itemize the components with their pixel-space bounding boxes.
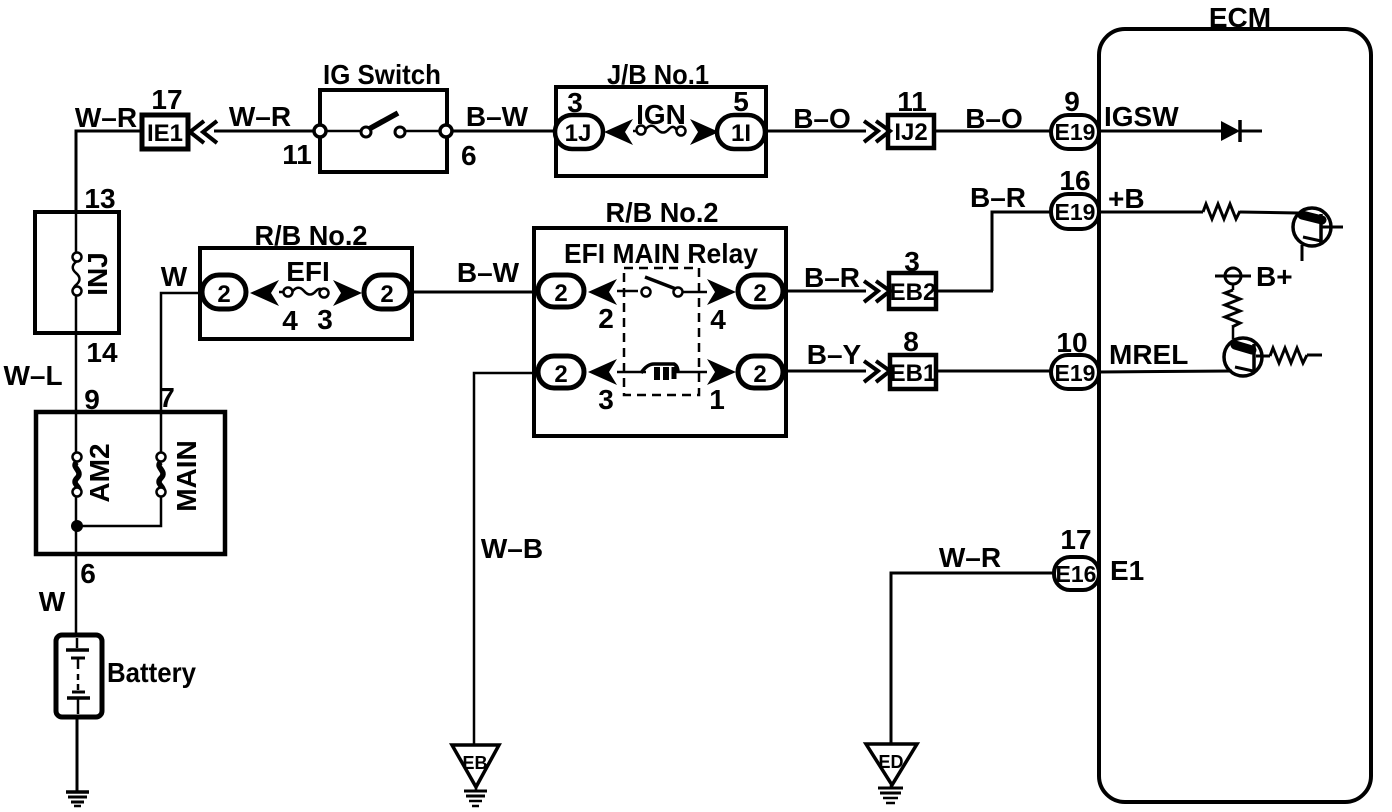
connector 2 (EFI fuse right) <box>364 275 410 309</box>
svg-text:5: 5 <box>733 86 749 117</box>
svg-text:2: 2 <box>753 361 766 388</box>
solid arrow left (J/B) <box>604 119 633 145</box>
label 2 (relay pin) <box>598 303 614 334</box>
svg-text:E16: E16 <box>1056 561 1097 587</box>
wire battery to ground <box>76 717 79 792</box>
svg-text:17: 17 <box>151 84 182 115</box>
ECM box <box>1099 2 1371 802</box>
label B-Y <box>807 339 862 370</box>
switch S1 contacts and lever <box>326 113 441 137</box>
svg-text:11: 11 <box>897 86 927 117</box>
label EFI <box>286 256 330 287</box>
svg-text:16: 16 <box>1059 165 1090 196</box>
INJ box <box>35 212 119 333</box>
label W-L <box>3 360 62 391</box>
svg-text:EFI MAIN Relay: EFI MAIN Relay <box>564 238 758 269</box>
svg-text:14: 14 <box>86 337 118 368</box>
wire IGSW with diode D1 <box>1099 120 1262 142</box>
label 14 (INJ pin) <box>86 337 118 368</box>
label 1 (relay pin) <box>709 384 725 415</box>
label B-W (row 1) <box>466 101 529 132</box>
svg-text:ECM: ECM <box>1209 2 1271 33</box>
wire resistor to transistor Q1 <box>1240 212 1298 213</box>
label 6 (battery feed pin) <box>80 558 96 589</box>
label W-R (E1 row) <box>939 542 1001 573</box>
relay switch contact <box>617 277 707 297</box>
ground EB <box>452 745 499 806</box>
node pin 6 (IG switch right) <box>440 125 477 171</box>
label +B <box>1108 183 1145 214</box>
label B-O <box>793 103 851 134</box>
relay dashed outline <box>624 268 699 395</box>
svg-text:1I: 1I <box>731 120 751 147</box>
svg-text:ED: ED <box>878 752 903 772</box>
svg-text:3: 3 <box>598 384 614 415</box>
ground ED <box>866 744 917 803</box>
wire IJ2 to E19 pin 9 <box>934 130 1052 133</box>
connector 1I <box>717 115 765 149</box>
svg-text:AM2: AM2 <box>84 443 115 502</box>
svg-text:B–W: B–W <box>466 101 529 132</box>
label 17 (E16 pin) <box>1060 524 1091 555</box>
wire coil to EB1 <box>783 370 866 373</box>
svg-text:2: 2 <box>753 280 766 307</box>
fuse INJ <box>73 212 114 333</box>
svg-text:2: 2 <box>380 281 393 308</box>
svg-text:2: 2 <box>217 281 230 308</box>
label W-R (far left) <box>75 102 137 133</box>
label IGSW <box>1104 101 1179 132</box>
wire INJ to AM2 <box>75 333 78 413</box>
wire +B to resistor <box>1099 211 1203 214</box>
svg-text:11: 11 <box>282 139 312 170</box>
double chevron arrow (left) at IE1 <box>190 121 217 143</box>
wire E1 to ED ground <box>891 573 1054 744</box>
wire AM2 to box bottom <box>75 496 78 554</box>
resistor R3 (Q2 emitter) <box>1256 348 1322 363</box>
fusible link box (AM2/MAIN) <box>36 412 225 554</box>
double chevron arrow at EB1 <box>864 361 890 382</box>
svg-text:4: 4 <box>710 304 726 335</box>
battery BT1 <box>56 635 196 717</box>
wire IE1 to IG switch <box>214 130 318 133</box>
wire EB1 to E19 pin 10 <box>936 370 1052 373</box>
fusible link MAIN <box>157 413 203 512</box>
solid arrow left (coil row) <box>588 359 617 385</box>
label 9 (pin) <box>1064 86 1080 117</box>
wire EFI fuse to relay <box>410 291 539 294</box>
svg-text:B–W: B–W <box>457 257 520 288</box>
svg-text:MAIN: MAIN <box>171 440 202 512</box>
solid arrow left (EFI fuse) <box>250 280 279 306</box>
svg-text:E19: E19 <box>1055 360 1096 386</box>
wire IG switch to J/B No.1 <box>452 130 556 133</box>
label 3 (above EB2) <box>904 246 920 277</box>
label W (battery wire) <box>39 586 66 617</box>
label E1 <box>1110 555 1144 586</box>
label 8 (above EB1) <box>903 326 919 357</box>
svg-text:6: 6 <box>80 558 96 589</box>
label B-R <box>804 262 860 293</box>
label 11 (above IJ2) <box>897 86 927 117</box>
wire W-R top left corner <box>76 131 143 212</box>
label 4 (relay pin) <box>710 304 726 335</box>
svg-text:B–O: B–O <box>793 103 851 134</box>
svg-text:6: 6 <box>461 140 477 171</box>
solid arrow right (contact row) <box>707 279 736 305</box>
connector IJ2 <box>888 115 934 148</box>
svg-text:17: 17 <box>1060 524 1091 555</box>
resistor R1 (+B line) <box>1203 204 1240 219</box>
svg-text:2: 2 <box>554 280 567 307</box>
fusible link AM2 <box>73 412 116 503</box>
ground (battery) <box>66 792 89 806</box>
wire contact to EB2 <box>783 290 866 293</box>
svg-text:2: 2 <box>598 303 614 334</box>
connector 2 (relay coil left) <box>538 356 584 388</box>
label 5 (pin of 1I) <box>733 86 749 117</box>
wire coil to W-B ground run <box>474 373 538 745</box>
wire MREL to Q2 <box>1099 371 1232 372</box>
label 9 (AM2 pin) <box>84 384 100 415</box>
svg-text:EB1: EB1 <box>890 360 937 387</box>
svg-text:EB: EB <box>462 753 487 773</box>
svg-text:B–R: B–R <box>804 262 860 293</box>
junction node A <box>71 520 83 532</box>
label W-B <box>481 533 543 564</box>
label 3 (fuse pin) <box>317 304 333 335</box>
double chevron arrow at EB2 <box>864 281 890 302</box>
connector EB2 <box>889 273 936 309</box>
svg-text:B–R: B–R <box>970 182 1026 213</box>
svg-text:IG Switch: IG Switch <box>323 59 441 90</box>
svg-text:W–R: W–R <box>939 542 1001 573</box>
svg-text:MREL: MREL <box>1109 339 1188 370</box>
wire 1I to IJ2 <box>765 130 866 133</box>
solid arrow left (contact row) <box>588 279 617 305</box>
svg-text:B–O: B–O <box>965 103 1023 134</box>
label 17 (above IE1) <box>151 84 182 115</box>
label B-O (second) <box>965 103 1023 134</box>
svg-text:INJ: INJ <box>82 252 113 296</box>
svg-text:W–B: W–B <box>481 533 543 564</box>
svg-text:1: 1 <box>709 384 725 415</box>
svg-text:E19: E19 <box>1055 199 1096 225</box>
solid arrow right (J/B) <box>690 119 719 145</box>
svg-text:W–R: W–R <box>75 102 137 133</box>
IG Switch box <box>320 59 447 172</box>
wire to battery <box>75 554 78 636</box>
svg-text:B–Y: B–Y <box>807 339 862 370</box>
label 10 (pin) <box>1056 327 1087 358</box>
fuse EFI <box>279 288 329 298</box>
svg-text:W–R: W–R <box>229 101 291 132</box>
svg-text:W: W <box>39 586 66 617</box>
svg-text:EFI: EFI <box>286 256 330 287</box>
svg-text:IGSW: IGSW <box>1104 101 1179 132</box>
wire MAIN to junction <box>77 496 161 526</box>
resistor R2 (vertical from B+) <box>1225 284 1240 339</box>
svg-text:E19: E19 <box>1055 119 1096 145</box>
wire W corner to EFI fuse <box>161 293 202 413</box>
connector E19 pin 9 <box>1051 115 1099 149</box>
svg-text:1J: 1J <box>565 120 592 147</box>
svg-text:7: 7 <box>159 382 175 413</box>
label B-R (top, at pin 16) <box>970 182 1026 213</box>
solid arrow right (EFI fuse) <box>333 280 362 306</box>
label 13 (INJ pin) <box>84 183 115 214</box>
transistor Q1 <box>1293 208 1343 261</box>
R/B No.2 box (EFI MAIN relay) <box>534 197 786 436</box>
double chevron arrow (right) at IJ2 <box>864 121 890 142</box>
label W-R (second) <box>229 101 291 132</box>
label 3 (relay pin) <box>598 384 614 415</box>
solid arrow right (coil row) <box>707 359 736 385</box>
connector E19 pin 16 <box>1051 194 1099 229</box>
connector EB1 <box>890 355 937 389</box>
svg-text:B+: B+ <box>1256 261 1293 292</box>
fuse IGN <box>633 99 686 136</box>
svg-text:3: 3 <box>317 304 333 335</box>
svg-text:J/B No.1: J/B No.1 <box>607 59 709 90</box>
svg-text:R/B No.2: R/B No.2 <box>255 220 368 251</box>
node pin 11 (IG switch left) <box>282 125 326 170</box>
power symbol B+ <box>1215 261 1293 292</box>
connector 2 (relay coil right) <box>738 356 783 388</box>
svg-text:EB2: EB2 <box>890 279 937 306</box>
connector 2 (EFI fuse left) <box>202 275 246 309</box>
svg-text:R/B No.2: R/B No.2 <box>606 197 719 228</box>
label 3 (pin of 1J) <box>567 87 583 118</box>
wire EB2 up to E19 pin 16 <box>992 212 1052 291</box>
label 4 (fuse pin) <box>282 305 298 336</box>
svg-text:W: W <box>161 261 188 292</box>
svg-text:2: 2 <box>554 361 567 388</box>
label W (EFI fuse feed) <box>161 261 188 292</box>
connector E19 pin 10 <box>1051 355 1099 389</box>
svg-text:IGN: IGN <box>636 99 686 130</box>
svg-text:E1: E1 <box>1110 555 1144 586</box>
svg-text:+B: +B <box>1108 183 1145 214</box>
R/B No.2 box (EFI fuse) <box>200 220 412 339</box>
svg-text:W–L: W–L <box>3 360 62 391</box>
svg-text:9: 9 <box>1064 86 1080 117</box>
svg-text:4: 4 <box>282 305 298 336</box>
connector E16 pin 17 <box>1054 557 1099 590</box>
relay coil L1 <box>617 364 707 380</box>
label B-W (second) <box>457 257 520 288</box>
svg-text:13: 13 <box>84 183 115 214</box>
J/B No.1 box <box>556 59 766 176</box>
transistor Q2 <box>1224 338 1262 376</box>
svg-text:IJ2: IJ2 <box>894 119 927 146</box>
wire EB2 right <box>936 290 993 293</box>
svg-text:IE1: IE1 <box>147 120 183 147</box>
connector IE1 <box>142 115 188 149</box>
connector 2 (relay contact left) <box>538 275 584 307</box>
label 7 (MAIN pin) <box>159 382 175 413</box>
svg-text:8: 8 <box>903 326 919 357</box>
connector 1J <box>555 115 603 149</box>
label 16 (pin) <box>1059 165 1090 196</box>
connector 2 (relay contact right) <box>738 275 783 307</box>
svg-text:Battery: Battery <box>107 657 196 688</box>
label MREL <box>1109 339 1188 370</box>
